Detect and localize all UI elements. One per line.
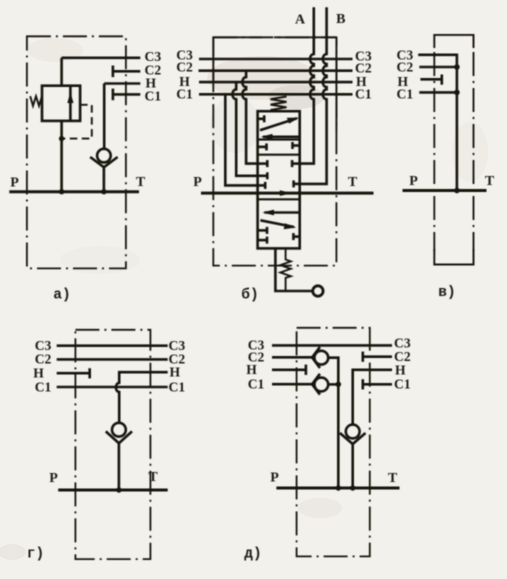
sec IV left-point arrow	[265, 211, 300, 214]
wire cv2 out	[328, 383, 338, 386]
P-T line a	[9, 190, 139, 193]
sec I left-point arrow	[263, 136, 300, 139]
valve body b	[258, 111, 300, 248]
svg-text:C1: C1	[397, 87, 414, 102]
port line C3	[62, 56, 141, 59]
svg-text:P: P	[193, 175, 202, 190]
wire junction to P-T	[337, 384, 340, 488]
sec IV left stub 1	[258, 229, 267, 232]
sec III right port A	[292, 162, 300, 165]
line C3 g	[57, 344, 168, 347]
svg-text:C2: C2	[35, 352, 52, 367]
line H v with plug	[420, 78, 441, 81]
svg-text:в): в)	[438, 285, 455, 301]
line C2 b	[199, 69, 353, 72]
sec I left stub	[258, 118, 265, 121]
enclosure (dash-dot box) g	[75, 330, 150, 559]
line H d right to check valve	[353, 370, 392, 425]
leg from H with hop	[232, 82, 257, 176]
line C3 d	[272, 344, 392, 347]
relief valve body	[42, 86, 80, 121]
sec II left stub	[258, 146, 267, 149]
enclosure (dash-dot box) v	[434, 35, 473, 48]
svg-text:C1: C1	[176, 86, 193, 101]
node on P-T g	[116, 487, 121, 492]
node C2-junction	[454, 64, 460, 70]
line H g right to check valve	[116, 372, 168, 423]
node cv junction	[336, 382, 342, 388]
svg-text:T: T	[485, 174, 495, 189]
enclosure (dash-dot box) b	[213, 37, 336, 265]
svg-text:H: H	[33, 366, 44, 381]
port line C2 with plugged stub	[113, 70, 140, 73]
leg from C1	[225, 94, 257, 185]
line C3 b	[199, 58, 353, 61]
pilot line (dashed)	[63, 105, 92, 139]
P-T line g	[58, 489, 168, 492]
svg-text:P: P	[49, 471, 58, 486]
line C2 d right with plug	[363, 355, 392, 358]
P-T line d	[276, 487, 399, 490]
line H d left with plug	[272, 368, 306, 371]
valve section border 1	[258, 138, 300, 140]
svg-text:C2: C2	[397, 60, 414, 75]
node C1-junction	[454, 90, 460, 96]
sec IV right stub	[293, 235, 299, 238]
svg-text:C1: C1	[394, 377, 411, 392]
svg-text:B: B	[336, 12, 345, 27]
svg-text:г): г)	[27, 547, 44, 563]
enclosure (dash-dot box) d	[297, 328, 370, 557]
line C1 v	[419, 91, 458, 94]
node on P-T v	[454, 188, 460, 194]
check valve d1	[312, 347, 320, 368]
leg from C2 with hops	[242, 71, 257, 164]
P-T line v	[403, 189, 487, 192]
P-T arrow inside valve	[280, 190, 292, 196]
check valve a	[97, 149, 111, 163]
sec III left port 3	[258, 184, 266, 187]
enclosure (dash-dot box) a	[27, 36, 126, 268]
svg-text:C2: C2	[355, 60, 372, 75]
sec IV diagonal arrow	[260, 220, 294, 227]
svg-text:T: T	[148, 470, 158, 485]
svg-text:H: H	[246, 362, 257, 377]
node on P-T at relief leg	[59, 189, 64, 194]
line H g left with plug	[57, 372, 90, 375]
svg-text:д): д)	[244, 547, 261, 563]
sec II right stub	[293, 144, 300, 147]
svg-text:а): а)	[53, 288, 70, 304]
enclosure overlay dashes b	[213, 36, 262, 38]
spring on valve top	[271, 97, 287, 111]
valve section border 3	[258, 198, 300, 200]
svg-text:A: A	[295, 13, 306, 28]
svg-text:P: P	[409, 174, 418, 189]
sec III left port 1	[258, 162, 268, 165]
svg-text:H: H	[170, 365, 181, 380]
relief valve spring	[30, 96, 42, 106]
sec IV left stub 2	[258, 239, 267, 242]
node on P-T d right	[350, 485, 355, 490]
port line C1 with plugged stub	[113, 93, 140, 96]
line C3 v	[418, 55, 457, 191]
svg-text:T: T	[136, 175, 146, 190]
sec III right port B	[294, 183, 300, 186]
svg-text:C1: C1	[355, 87, 372, 102]
svg-text:C1: C1	[248, 377, 265, 392]
wire cv1 out	[328, 358, 338, 385]
svg-text:C1: C1	[145, 88, 162, 103]
svg-text:T: T	[388, 471, 398, 486]
node on P-T at check valve leg	[101, 189, 106, 194]
line C1 d right with plug	[363, 383, 392, 386]
svg-text:H: H	[395, 363, 406, 378]
svg-text:P: P	[10, 175, 19, 190]
sec III left port 2	[258, 175, 268, 178]
line C2 d left	[272, 356, 312, 359]
P-T line b	[201, 192, 374, 195]
svg-text:C2: C2	[176, 60, 193, 75]
svg-text:C1: C1	[35, 379, 52, 394]
line C1 d left	[272, 383, 312, 386]
drain wire left below valve	[275, 248, 312, 291]
sec I diagonal arrow	[260, 118, 297, 130]
wire valve bottom to P-T	[60, 121, 63, 192]
line H b	[199, 81, 353, 84]
port line H	[104, 82, 140, 85]
wire B with hops	[300, 7, 327, 184]
wire valve top to C3	[60, 58, 63, 86]
line C2 v	[419, 66, 458, 69]
line C2 g	[57, 358, 168, 361]
check valve d2	[312, 374, 320, 395]
relief valve arrow	[69, 86, 72, 121]
node on P-T d left	[336, 485, 341, 490]
svg-text:б): б)	[241, 288, 258, 304]
svg-text:P: P	[270, 471, 279, 486]
wire A with hops	[300, 7, 314, 163]
node pilot junction	[59, 136, 64, 141]
wire H to check valve	[103, 84, 106, 149]
check valve g	[112, 423, 126, 437]
pilot roller circle	[313, 286, 323, 296]
svg-text:T: T	[348, 175, 358, 190]
svg-text:C1: C1	[169, 379, 186, 394]
spring below valve	[280, 248, 290, 291]
line C1 b	[199, 93, 353, 96]
check valve d3	[346, 425, 360, 439]
line C1 g	[57, 386, 168, 389]
valve section border 2	[258, 154, 300, 156]
